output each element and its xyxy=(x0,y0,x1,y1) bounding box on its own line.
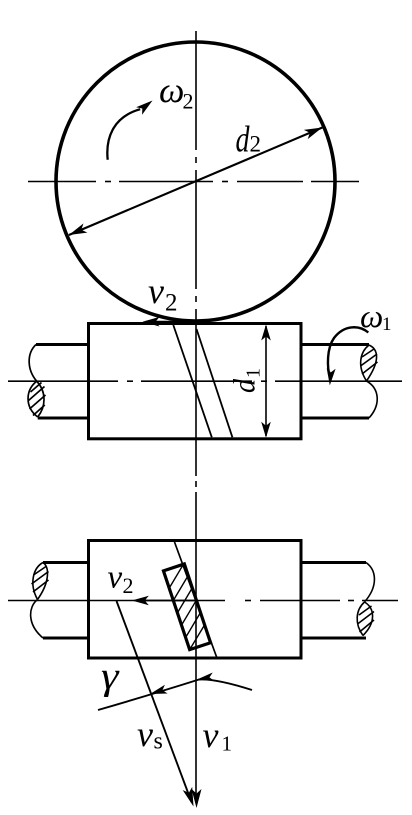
svg-text:2: 2 xyxy=(165,290,178,317)
svg-text:1: 1 xyxy=(222,732,233,756)
svg-text:v: v xyxy=(108,560,123,596)
svg-text:2: 2 xyxy=(183,89,194,114)
svg-text:v: v xyxy=(148,271,164,311)
svg-text:d: d xyxy=(236,120,250,161)
svg-text:s: s xyxy=(154,729,163,755)
svg-text:1: 1 xyxy=(382,314,392,335)
svg-text:2: 2 xyxy=(250,132,262,157)
svg-text:v: v xyxy=(203,715,219,755)
svg-text:d: d xyxy=(227,379,262,393)
svg-text:2: 2 xyxy=(123,573,134,598)
svg-text:v: v xyxy=(137,714,153,754)
svg-text:1: 1 xyxy=(243,368,265,378)
svg-text:ω: ω xyxy=(159,70,184,110)
svg-text:γ: γ xyxy=(101,655,120,698)
